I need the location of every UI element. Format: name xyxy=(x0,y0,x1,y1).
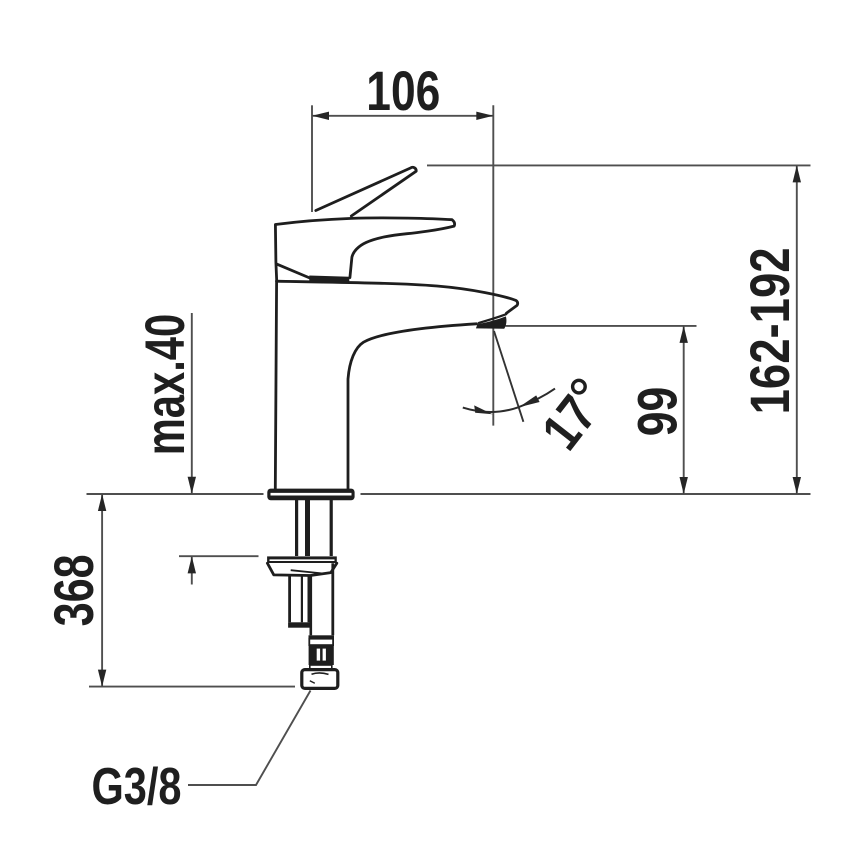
node: 17 degree swing arc xyxy=(463,389,555,412)
node: arrow 368 top xyxy=(98,494,106,511)
knurl white slot 2 xyxy=(323,649,326,661)
wire: counter top line right segment xyxy=(361,493,811,495)
handle cap front slant line xyxy=(277,264,311,278)
node: arrow 106 right xyxy=(476,112,493,120)
wire: bottom reference line (368) xyxy=(89,686,295,688)
supply pipe line 2 (thick center) xyxy=(305,500,310,556)
node: arrow max.40 up xyxy=(188,556,196,573)
threaded rod right edge xyxy=(307,576,310,623)
G3/8 end fitting xyxy=(302,670,338,689)
mounting washer bar (dark) xyxy=(267,556,337,563)
node: degree ring of 17 xyxy=(573,380,586,393)
mounting nut body xyxy=(267,563,336,575)
hose connector band 1 xyxy=(309,635,335,638)
node: G3/8 leader line xyxy=(188,691,311,786)
threaded rod end cap (dark) xyxy=(288,622,310,627)
hose connector knurled block (dark) xyxy=(309,645,334,665)
svg-text:162-192: 162-192 xyxy=(738,247,801,414)
node: 17 degree slant line xyxy=(494,331,523,422)
node: arrow 99 bottom xyxy=(680,477,688,494)
node: arc arrow left xyxy=(474,405,492,414)
node: arrow 106 left xyxy=(312,112,329,120)
G3/8 fitting inner curve xyxy=(312,673,329,674)
handle cap dark bottom band xyxy=(309,276,349,283)
node: arrow 368 bottom xyxy=(98,670,106,687)
spout underside / column right edge xyxy=(348,324,477,489)
hose connector white band xyxy=(310,665,332,669)
base flange inner glint xyxy=(271,493,352,496)
supply hose right edge xyxy=(331,563,334,635)
svg-text:G3/8: G3/8 xyxy=(92,758,182,816)
handle cap outline xyxy=(275,218,454,281)
svg-text:max.40: max.40 xyxy=(133,314,196,456)
mounting nut inner line xyxy=(291,570,322,573)
threaded rod left edge xyxy=(288,576,291,623)
wire: counter underside line (max.40) xyxy=(179,555,259,557)
wire: counter top line left segment xyxy=(87,493,264,495)
svg-text:99: 99 xyxy=(626,387,689,437)
body top / spout top edge xyxy=(277,281,518,313)
supply hose left edge xyxy=(309,576,312,636)
aerator outlet (dark) xyxy=(476,316,507,328)
node: dimension 99 line xyxy=(683,326,685,494)
svg-text:106: 106 xyxy=(366,59,440,122)
node: dimension 106 extension line left xyxy=(311,105,313,212)
node: dimension 106 extension line right / outlet axis xyxy=(492,105,494,425)
wire: lever tip reference line (top of 162-192) xyxy=(427,164,811,166)
threaded rod mid line xyxy=(301,576,303,623)
node: dimension 368 line xyxy=(101,494,103,687)
aerator top edge line xyxy=(479,314,506,323)
knurl white slot 1 xyxy=(317,649,320,661)
node: arrow 162-192 bottom xyxy=(793,477,801,494)
node: dimension 106 line xyxy=(312,115,493,117)
body left edge xyxy=(275,281,276,489)
G3/8 fitting inner tick xyxy=(310,681,315,683)
node: arrow 162-192 top xyxy=(793,165,801,182)
node: dimension 162-192 line xyxy=(796,165,798,494)
node: arrow max.40 down xyxy=(188,477,196,494)
supply pipe line 3 xyxy=(330,500,333,556)
node: dimension max.40 line upper xyxy=(191,313,193,494)
svg-text:368: 368 xyxy=(42,554,105,626)
wire: spout outlet reference line (top of 99) xyxy=(506,325,697,327)
node: arrow 99 top xyxy=(680,326,688,343)
mounting washer white core xyxy=(270,559,335,561)
node: arc arrow right xyxy=(519,395,540,407)
supply pipe line 1 xyxy=(295,500,298,556)
node: dimension max.40 line lower xyxy=(191,556,193,584)
hose connector white ring xyxy=(309,639,333,645)
base flange xyxy=(267,489,354,501)
lever handle blade xyxy=(316,167,416,216)
